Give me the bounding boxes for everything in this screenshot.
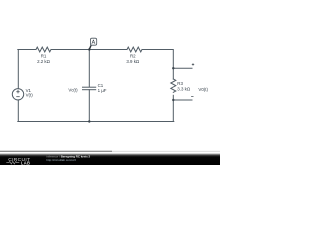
svg-text:3.3 kΩ: 3.3 kΩ	[177, 87, 191, 92]
svg-text:R3: R3	[177, 81, 183, 86]
svg-text:1 µF: 1 µF	[98, 88, 107, 93]
svg-text:http://circuitlab.com/c/2: http://circuitlab.com/c/2	[46, 158, 76, 162]
svg-text:V(t): V(t)	[26, 92, 34, 97]
svg-text:V0(t): V0(t)	[198, 87, 208, 92]
svg-text:LAB: LAB	[21, 160, 30, 165]
svg-text:2.2 kΩ: 2.2 kΩ	[37, 59, 51, 64]
svg-text:Vc(t): Vc(t)	[68, 87, 78, 92]
svg-text:3.9 kΩ: 3.9 kΩ	[126, 59, 140, 64]
